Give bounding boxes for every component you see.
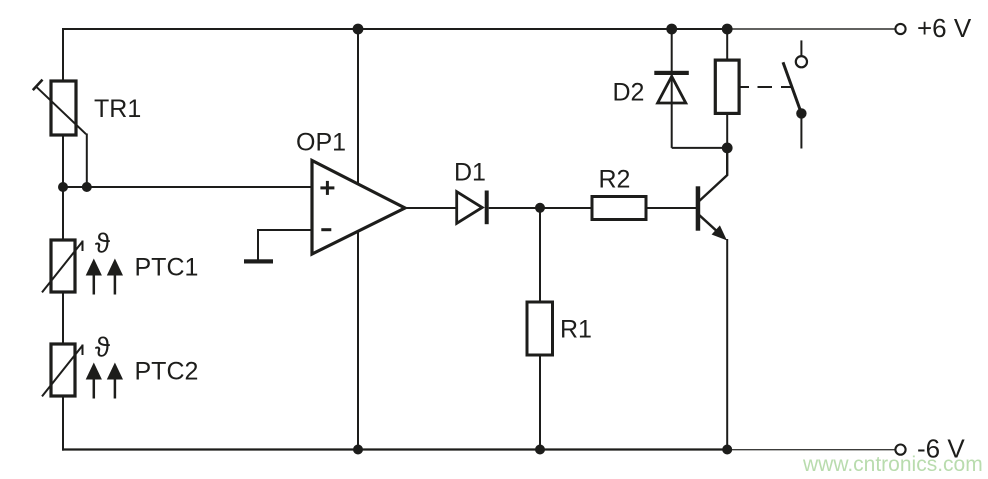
svg-text:TR1: TR1 xyxy=(94,95,141,123)
switch contact S1 xyxy=(783,40,807,148)
node D2 top junction xyxy=(666,24,677,35)
diode D1 xyxy=(457,191,489,225)
wire bottom -6V rail xyxy=(62,448,728,450)
thermistor PTC2 body xyxy=(42,344,83,396)
svg-text:ϑ: ϑ xyxy=(95,332,110,363)
wire TR1 wiper diagonal xyxy=(37,87,86,134)
wire R2 to base xyxy=(646,207,696,209)
node supply top junction xyxy=(353,24,364,35)
node R1 bottom junction xyxy=(535,445,545,455)
diode D2 xyxy=(654,71,689,103)
svg-text:R1: R1 xyxy=(560,316,592,344)
node relay top junction xyxy=(722,24,733,35)
node collector junction xyxy=(722,143,733,154)
node emitter bottom junction xyxy=(722,445,732,455)
resistor R2 xyxy=(592,197,646,220)
svg-text:R2: R2 xyxy=(599,166,631,194)
wire inverting input to ground xyxy=(258,230,313,260)
wire bottom rail right segment xyxy=(728,449,895,451)
terminal -6V xyxy=(895,445,905,455)
svg-text:+6 V: +6 V xyxy=(917,13,972,43)
ground xyxy=(244,259,273,263)
wire R1 branch xyxy=(539,208,541,450)
svg-text:D2: D2 xyxy=(613,79,645,107)
wire left vertical branch xyxy=(62,28,64,451)
arrows PTC1 xyxy=(86,259,123,295)
transistor Q1 xyxy=(696,148,728,241)
wire top rail right segment xyxy=(728,28,895,30)
wire relay bottom lead xyxy=(726,113,728,147)
thermistor PTC1 body xyxy=(42,240,83,292)
wire TR1 wiper T-bar xyxy=(33,80,43,91)
node supply bottom junction xyxy=(353,445,363,455)
relay coil K1 xyxy=(715,60,739,113)
arrows PTC2 xyxy=(86,363,123,399)
wire D1 to R2 xyxy=(489,207,592,209)
wire top +6V rail xyxy=(62,28,728,30)
resistor R1 xyxy=(527,302,553,355)
op-amp minus sign xyxy=(321,228,331,231)
svg-text:OP1: OP1 xyxy=(296,129,346,157)
wire relay actuation dashed link xyxy=(739,86,791,88)
svg-text:D1: D1 xyxy=(454,159,486,187)
node D1/R1 junction xyxy=(535,203,545,213)
svg-text:PTC1: PTC1 xyxy=(135,254,199,282)
terminal +6V xyxy=(895,24,905,34)
op-amp plus sign xyxy=(320,181,334,195)
wire D2 branch xyxy=(671,29,673,148)
node junction wiper xyxy=(82,182,92,192)
wire D2 to collector node xyxy=(672,147,728,149)
svg-text:www.cntronics.com: www.cntronics.com xyxy=(802,453,983,476)
wire op-amp output xyxy=(405,207,458,209)
svg-text:ϑ: ϑ xyxy=(95,228,110,259)
wire op-amp supply vertical xyxy=(357,29,359,450)
op-amp OP1 xyxy=(312,161,405,255)
wire non-inverting input xyxy=(63,186,313,188)
resistor TR1 xyxy=(51,81,76,135)
wire TR1 wiper down lead xyxy=(86,134,88,188)
node junction left xyxy=(58,182,68,192)
wire relay top lead xyxy=(726,29,728,60)
svg-text:PTC2: PTC2 xyxy=(135,358,199,386)
wire emitter down xyxy=(726,239,728,450)
